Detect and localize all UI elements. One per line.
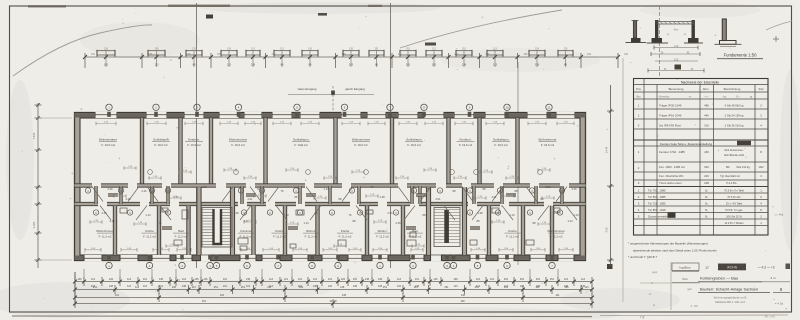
svg-text:Wohnz.: Wohnz. — [377, 229, 387, 233]
dimension chain 3 — [73, 293, 594, 302]
svg-text:138: 138 — [353, 285, 358, 288]
svg-text:310: 310 — [704, 124, 709, 128]
svg-text:138: 138 — [251, 64, 256, 67]
svg-text:376: 376 — [587, 53, 592, 56]
svg-text:4.38: 4.38 — [605, 227, 609, 233]
svg-text:Pos: Pos — [636, 87, 641, 91]
stairwell 2 — [434, 208, 460, 247]
svg-text:101: 101 — [159, 285, 164, 288]
svg-text:251: 251 — [299, 286, 304, 289]
axis bubbles top — [106, 104, 552, 117]
svg-text:101: 101 — [284, 278, 289, 281]
svg-text:abweichende arbeiten nach d: abweichende arbeiten nach dem Detail unt… — [633, 249, 717, 253]
svg-text:* und Punkt 7: §16 B 7: * und Punkt 7: §16 B 7 — [628, 255, 657, 259]
svg-text:1.13: 1.13 — [303, 221, 309, 225]
svg-text:113: 113 — [493, 64, 498, 67]
svg-text:2.26: 2.26 — [141, 189, 147, 193]
svg-text:2 m: 2 m — [770, 276, 776, 280]
handwritten margin note — [775, 212, 784, 217]
svg-text:Küche: Küche — [275, 229, 284, 233]
svg-text:163: 163 — [406, 64, 411, 67]
svg-text:126: 126 — [433, 278, 438, 281]
svg-text:2.01: 2.01 — [247, 197, 253, 201]
left vertical dimension line — [32, 103, 72, 268]
svg-text:138: 138 — [172, 286, 177, 289]
svg-text:5.4.4 B.L.: 5.4.4 B.L. — [726, 181, 738, 185]
top border dash A — [28, 5, 66, 7]
note line 1 — [628, 242, 708, 246]
title block row 4 — [714, 296, 747, 305]
svg-text:Abm.: Abm. — [703, 87, 710, 91]
svg-text:2.26: 2.26 — [571, 187, 577, 191]
svg-text:10/2: 10/2 — [758, 165, 764, 169]
svg-text:- m -: - m - — [704, 95, 709, 98]
svg-text:113: 113 — [227, 64, 232, 67]
title block row 5 — [640, 270, 784, 308]
small dimension marks — [90, 166, 554, 248]
chain left border — [74, 272, 76, 306]
entrance door gap — [201, 254, 211, 261]
svg-text:F: 11,2 m2: F: 11,2 m2 — [143, 235, 156, 239]
svg-text:101: 101 — [223, 285, 228, 288]
svg-text:Küche: Küche — [341, 229, 350, 233]
title block row 2 — [672, 275, 790, 282]
svg-text:F: 19,6 m2: F: 19,6 m2 — [187, 143, 201, 147]
svg-text:138: 138 — [313, 285, 318, 288]
svg-text:138: 138 — [342, 53, 347, 56]
svg-text:126: 126 — [109, 278, 114, 281]
entrance door gap — [431, 254, 442, 261]
svg-text:14.49: 14.49 — [605, 146, 609, 153]
svg-text:138: 138 — [148, 53, 153, 56]
ink smudge D — [607, 264, 613, 269]
svg-text:gleich Eingang: gleich Eingang — [345, 87, 365, 91]
scan crease curve left — [13, 25, 152, 76]
svg-text:101: 101 — [504, 286, 509, 289]
svg-text:* umgerechnete Abmessungen d: * umgerechnete Abmessungen der Bauteile … — [628, 242, 708, 246]
svg-text:251: 251 — [520, 278, 525, 281]
svg-text:1 : 50: 1 : 50 — [691, 304, 698, 308]
svg-text:Wohnzimmer: Wohnzimmer — [96, 229, 114, 233]
svg-text:163: 163 — [432, 64, 437, 67]
svg-text:Kohlengruben — Bau: Kohlengruben — Bau — [700, 275, 738, 280]
svg-text:F: 11,2 m2: F: 11,2 m2 — [506, 235, 519, 239]
svg-text:Wohnzimmer: Wohnzimmer — [229, 138, 247, 142]
svg-text:F: 19,6 m2: F: 19,6 m2 — [541, 143, 555, 147]
svg-text:F: 19,6 m2: F: 19,6 m2 — [154, 143, 168, 147]
svg-text:138: 138 — [246, 278, 251, 281]
svg-text:Stck: Stck — [758, 87, 764, 91]
svg-text:Fundamente 1:50: Fundamente 1:50 — [724, 53, 757, 58]
svg-text:138: 138 — [109, 285, 114, 288]
svg-text:St.: St. — [705, 208, 709, 212]
top border dash C — [368, 5, 382, 7]
fold text right — [765, 315, 776, 319]
fold text 7 8 — [640, 315, 645, 319]
svg-text:- Bemerkg -: - Bemerkg - — [658, 95, 671, 98]
svg-text:Tür 762 . 1985: Tür 762 . 1985 — [648, 189, 666, 193]
svg-text:126: 126 — [486, 53, 491, 56]
svg-text:Stck 212 kg: Stck 212 kg — [736, 165, 750, 169]
svg-text:101: 101 — [115, 294, 120, 297]
svg-text:440: 440 — [704, 114, 709, 118]
svg-text:113: 113 — [143, 285, 148, 288]
svg-text:Fenster Gute Teile u. Zusam: Fenster Gute Teile u. Zusammenstellung — [660, 142, 712, 146]
section line B faint — [517, 62, 519, 265]
table section 3 text — [638, 189, 763, 225]
svg-text:7 8: 7 8 — [640, 315, 645, 319]
svg-text:Schlafraum: Schlafraum — [493, 138, 509, 142]
svg-text:101: 101 — [328, 278, 333, 281]
svg-text:WOHN: WOHN — [727, 266, 738, 270]
svg-text:251: 251 — [536, 278, 541, 281]
svg-text:1.38: 1.38 — [477, 211, 483, 215]
dimension chain 2 — [73, 285, 594, 294]
svg-text:138: 138 — [365, 278, 370, 281]
svg-text:2.01: 2.01 — [491, 195, 497, 199]
svg-text:113: 113 — [397, 278, 402, 281]
overall dim text — [330, 299, 337, 303]
svg-text:138: 138 — [182, 285, 187, 288]
table section 1 text — [636, 80, 764, 127]
entrance annotation — [288, 86, 374, 112]
position marker circles — [85, 170, 564, 216]
svg-text:126: 126 — [564, 286, 569, 289]
svg-text:13.2 lfm 7 Bretter: 13.2 lfm 7 Bretter — [724, 222, 743, 225]
svg-text:Haus Eingang: Haus Eingang — [298, 87, 317, 91]
chain 1 lower numbers — [91, 285, 586, 288]
svg-text:251: 251 — [475, 286, 480, 289]
svg-text:113: 113 — [313, 278, 318, 281]
ink smudge A — [206, 15, 213, 19]
svg-text:2.26: 2.26 — [101, 211, 107, 215]
paper fold shadow bottom — [12, 315, 788, 317]
ink smudge B — [318, 13, 327, 16]
svg-text:Tgl. Das Maß mit: Tgl. Das Maß mit — [720, 174, 740, 178]
svg-text:Bezeichnung: Bezeichnung — [724, 87, 741, 91]
svg-text:F: 11,2 m2: F: 11,2 m2 — [99, 235, 112, 239]
svg-text:Nachweis der Eisenteile: Nachweis der Eisenteile — [681, 80, 719, 84]
room labels bottom row — [96, 229, 565, 239]
svg-text:126: 126 — [624, 53, 629, 56]
svg-text:251: 251 — [353, 278, 358, 281]
svg-text:2.26: 2.26 — [395, 221, 401, 225]
fixtures — [120, 208, 560, 250]
svg-text:Schlafraum: Schlafraum — [293, 138, 309, 142]
svg-text:376: 376 — [217, 53, 222, 56]
top wall chunks — [75, 113, 586, 117]
svg-text:113: 113 — [454, 285, 459, 288]
svg-text:251: 251 — [383, 286, 388, 289]
svg-text:4.385: 4.385 — [32, 221, 36, 228]
plus mark — [773, 36, 779, 42]
svg-text:Kinderzi.: Kinderzi. — [459, 138, 471, 142]
svg-text:Schlafraum: Schlafraum — [153, 138, 169, 142]
svg-text:238: 238 — [704, 181, 709, 185]
svg-text:= 4.3a: = 4.3a — [775, 302, 784, 306]
svg-text:2.26: 2.26 — [125, 197, 131, 201]
svg-text:F: 11,2 m2: F: 11,2 m2 — [550, 235, 563, 239]
svg-text:Blatt: Blatt — [682, 277, 687, 281]
svg-text:163: 163 — [349, 64, 354, 67]
svg-text:Fen. 1000 . 1485 mit: Fen. 1000 . 1485 mit — [659, 165, 685, 169]
table grid — [634, 79, 769, 236]
svg-text:126: 126 — [341, 278, 346, 281]
svg-text:Kammer: Kammer — [240, 229, 251, 233]
svg-text:126: 126 — [524, 53, 529, 56]
svg-text:446: 446 — [704, 150, 709, 154]
title block row 3 — [688, 287, 790, 293]
footing detail middle — [647, 6, 705, 76]
svg-text:2 Stk 36 216 kg: 2 Stk 36 216 kg — [725, 124, 744, 128]
svg-text:113: 113 — [192, 286, 197, 289]
ink smudge C — [425, 43, 436, 46]
svg-text:F: 11,2 m2: F: 11,2 m2 — [339, 235, 352, 239]
svg-text:B0 u Mo: B0 u Mo — [765, 315, 776, 319]
svg-text:126: 126 — [203, 278, 208, 281]
section line A-A right — [390, 3, 392, 268]
svg-text:106 Stk 25 St: 106 Stk 25 St — [726, 214, 742, 218]
svg-text:Tür 726 . 1985: Tür 726 . 1985 — [648, 202, 666, 206]
svg-text:101: 101 — [490, 278, 495, 281]
outer wall outline — [75, 113, 586, 261]
middle wall lower — [75, 202, 586, 205]
svg-text:1.38: 1.38 — [233, 211, 239, 215]
footing caption — [717, 53, 763, 59]
svg-text:101: 101 — [298, 278, 303, 281]
svg-text:F: 19,6 m2: F: 19,6 m2 — [494, 143, 508, 147]
note line 2 — [633, 249, 717, 253]
middle band stub walls — [95, 186, 564, 229]
note line 3 — [628, 255, 657, 259]
svg-text:F: 11,2 m2: F: 11,2 m2 — [305, 235, 318, 239]
svg-text:113: 113 — [127, 278, 132, 281]
svg-text:Fen. Oberlichte WC: Fen. Oberlichte WC — [659, 174, 684, 178]
svg-text:fach Blende weiß: fach Blende weiß — [724, 153, 744, 157]
svg-text:1.13: 1.13 — [567, 219, 573, 223]
svg-text:251: 251 — [214, 286, 219, 289]
svg-text:Tür 851 . 1985: Tür 851 . 1985 — [648, 195, 666, 199]
svg-text:138: 138 — [461, 294, 466, 297]
svg-text:- m -: - m - — [688, 95, 693, 98]
svg-text:gepr.: gepr. — [652, 270, 658, 274]
svg-text:113: 113 — [135, 286, 140, 289]
svg-text:1.38: 1.38 — [379, 195, 385, 199]
svg-text:126: 126 — [328, 285, 333, 288]
svg-text:10: 10 — [505, 106, 509, 110]
svg-text:Küche: Küche — [508, 229, 517, 233]
door swing lines — [92, 187, 577, 221]
svg-text:St.: St. — [705, 189, 709, 193]
svg-text:Wohnzimmer: Wohnzimmer — [352, 138, 370, 142]
svg-text:2.26: 2.26 — [387, 211, 393, 215]
svg-text:1.13: 1.13 — [323, 187, 329, 191]
footing detail left — [626, 21, 647, 43]
svg-text:St.: St. — [705, 214, 709, 218]
svg-text:101: 101 — [520, 285, 525, 288]
top row partition walls — [140, 118, 519, 184]
svg-text:138: 138 — [159, 278, 164, 281]
svg-text:138: 138 — [378, 278, 383, 281]
svg-text:251: 251 — [398, 53, 403, 56]
svg-text:376: 376 — [272, 53, 277, 56]
svg-text:2 Stk 54 138 kg: 2 Stk 54 138 kg — [725, 114, 744, 118]
top wall windows — [95, 112, 575, 119]
svg-text:17: 17 — [705, 266, 709, 270]
svg-text:101: 101 — [223, 278, 228, 281]
svg-text:138: 138 — [535, 64, 540, 67]
svg-text:Ing.Büro: Ing.Büro — [679, 265, 691, 269]
svg-text:F: 19,6 m2: F: 19,6 m2 — [354, 143, 368, 147]
svg-text:Wohnzimmer: Wohnzimmer — [547, 229, 565, 233]
svg-text:251: 251 — [444, 286, 449, 289]
bottom wall windows — [84, 254, 574, 261]
bottom row partition walls — [113, 187, 553, 255]
svg-text:138: 138 — [77, 278, 82, 281]
svg-text:1.13: 1.13 — [283, 213, 289, 217]
svg-text:F: 11,2 m2: F: 11,2 m2 — [273, 235, 286, 239]
svg-text:Bad: Bad — [412, 229, 418, 233]
svg-text:70.5 lfm 9m: 70.5 lfm 9m — [727, 195, 741, 199]
svg-text:1.13: 1.13 — [145, 213, 151, 217]
svg-text:138: 138 — [340, 286, 345, 289]
table section 2 text — [638, 141, 764, 185]
svg-text:101: 101 — [555, 294, 560, 297]
svg-text:251: 251 — [455, 53, 460, 56]
section line A-A left — [196, 3, 198, 268]
svg-text:Bauherr: Schacht-Anlage Sach: Bauherr: Schacht-Anlage Sachsen — [700, 287, 758, 291]
svg-text:F: 19,6 m2: F: 19,6 m2 — [294, 143, 308, 147]
svg-text:138: 138 — [194, 278, 199, 281]
middle wall upper — [75, 184, 586, 187]
svg-text:251: 251 — [202, 300, 207, 303]
svg-text:340: 340 — [704, 165, 709, 169]
svg-text:2.26: 2.26 — [107, 187, 113, 191]
svg-text:101: 101 — [476, 278, 481, 281]
svg-text:126: 126 — [220, 294, 225, 297]
svg-text:t = 4kg: t = 4kg — [775, 212, 784, 217]
svg-text:2.01: 2.01 — [545, 185, 551, 189]
room labels top row — [99, 138, 557, 148]
svg-text:101: 101 — [415, 278, 420, 281]
svg-text:113: 113 — [127, 285, 132, 288]
right vertical dimension line — [605, 85, 615, 266]
svg-text:Türen siehe unten: Türen siehe unten — [659, 181, 682, 185]
svg-text:F: 19,6 m2: F: 19,6 m2 — [101, 143, 115, 147]
svg-text:138: 138 — [342, 294, 347, 297]
svg-text:Bau: Bau — [636, 96, 641, 98]
svg-text:St.: St. — [705, 195, 709, 199]
svg-text:113: 113 — [564, 278, 569, 281]
svg-text:2½ + 4½ Tafel: 2½ + 4½ Tafel — [726, 202, 743, 206]
svg-text:Küche: Küche — [145, 229, 154, 233]
svg-text:F: 19,6 m2: F: 19,6 m2 — [407, 143, 421, 147]
svg-text:251: 251 — [91, 53, 96, 56]
svg-text:113: 113 — [414, 286, 419, 289]
svg-text:113: 113 — [155, 64, 160, 67]
svg-text:2.26: 2.26 — [109, 219, 115, 223]
svg-text:Stz IP8 978 Rost: Stz IP8 978 Rost — [659, 124, 681, 128]
svg-text:2.01: 2.01 — [435, 197, 441, 201]
svg-text:Schlafraum: Schlafraum — [406, 138, 422, 142]
svg-text:Träger IP20 1049: Träger IP20 1049 — [659, 104, 682, 108]
svg-text:251: 251 — [93, 286, 98, 289]
svg-text:240: 240 — [704, 174, 709, 178]
svg-text:113: 113 — [182, 278, 187, 281]
svg-text:Träger IP16 1049: Träger IP16 1049 — [659, 114, 682, 118]
svg-text:113: 113 — [91, 278, 96, 281]
dimension chain 4 — [73, 299, 594, 308]
svg-text:F: 11,2 m2: F: 11,2 m2 — [409, 235, 422, 239]
svg-text:1.20: 1.20 — [674, 46, 679, 48]
top dimension chain — [83, 48, 629, 68]
svg-text:138: 138 — [460, 300, 465, 303]
svg-text:101: 101 — [535, 286, 540, 289]
bottom wall chunks — [75, 256, 586, 260]
svg-text:gez.: gez. — [688, 288, 693, 291]
svg-text:126: 126 — [397, 285, 402, 288]
scan crease curve middle — [400, 10, 562, 48]
svg-text:113: 113 — [246, 285, 251, 288]
svg-text:11: 11 — [548, 106, 551, 110]
svg-text:Wohnzimmer: Wohnzimmer — [99, 138, 117, 142]
svg-text:Wohnungsgebäude zu B: Wohnungsgebäude zu B — [714, 296, 747, 300]
svg-text:2.635: 2.635 — [32, 132, 36, 139]
svg-text:4 Stk 48 562 kg: 4 Stk 48 562 kg — [725, 104, 744, 108]
svg-text:Fenster 1742 . 1485: Fenster 1742 . 1485 — [659, 150, 685, 154]
svg-text:F: 11,2 m2: F: 11,2 m2 — [376, 235, 389, 239]
svg-text:St -: St - — [736, 95, 740, 98]
svg-text:138: 138 — [462, 64, 467, 67]
inner wall outline — [80, 118, 580, 255]
svg-text:- kg: - kg — [722, 95, 727, 98]
svg-text:St.: St. — [705, 202, 709, 206]
svg-text:Wohnzimmer: Wohnzimmer — [538, 138, 556, 142]
svg-text:F: 11,2 m2: F: 11,2 m2 — [175, 235, 188, 239]
fold line faint vertical — [622, 58, 624, 302]
dimension chain 1 — [73, 277, 594, 286]
svg-text:101: 101 — [143, 278, 148, 281]
svg-text:41,38: 41,38 — [330, 299, 337, 303]
svg-text:MF: MF — [726, 165, 730, 169]
svg-text:1.13: 1.13 — [573, 213, 579, 217]
title block row 1 — [671, 262, 790, 310]
window dimension marks — [85, 122, 574, 252]
svg-text:Tür 851 . 1938: Tür 851 . 1938 — [648, 208, 666, 212]
svg-text:113: 113 — [581, 278, 586, 281]
svg-text:70.5 lfm 7m Tafel: 70.5 lfm 7m Tafel — [724, 189, 744, 193]
axis bubbles bottom — [106, 255, 555, 269]
svg-text:1.38: 1.38 — [201, 185, 207, 189]
svg-text:1.38: 1.38 — [553, 211, 559, 215]
svg-text:Stck Zusammen-: Stck Zusammen- — [724, 148, 744, 152]
svg-text:251: 251 — [241, 286, 246, 289]
footing detail right — [715, 19, 742, 47]
top border dash B — [168, 5, 230, 7]
svg-text:70.5 B. 7m ges.: 70.5 B. 7m ges. — [725, 208, 743, 212]
svg-text:163: 163 — [104, 64, 109, 67]
svg-text:113: 113 — [585, 286, 590, 289]
svg-text:1.13: 1.13 — [509, 213, 515, 217]
svg-text:113: 113 — [267, 286, 272, 289]
svg-text:— 4.3 — +3: — 4.3 — +3 — [757, 266, 774, 270]
svg-text:251: 251 — [550, 278, 555, 281]
svg-text:Maßstab BD 1:100 und: Maßstab BD 1:100 und — [715, 300, 745, 304]
svg-text:Kinderzi.: Kinderzi. — [188, 138, 200, 142]
svg-text:Bad: Bad — [178, 229, 184, 233]
svg-text:138: 138 — [187, 53, 192, 56]
stairwell 1 — [202, 208, 232, 248]
